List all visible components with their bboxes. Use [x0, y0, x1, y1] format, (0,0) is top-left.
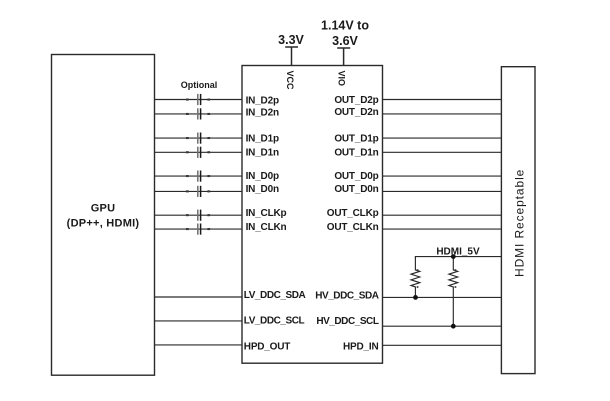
junction dot on HDMI_5V rail	[451, 254, 456, 259]
wire HPD_OUT	[155, 344, 243, 346]
svg-text:IN_D0n: IN_D0n	[246, 184, 279, 195]
svg-text:OUT_D0n: OUT_D0n	[334, 184, 378, 195]
wire IN_D2p	[155, 99, 243, 101]
svg-text:OUT_D0p: OUT_D0p	[334, 171, 378, 182]
wire IN_D2n	[155, 113, 243, 115]
wire OUT_D1n	[383, 151, 502, 153]
svg-text:IN_CLKn: IN_CLKn	[246, 222, 287, 233]
wire IN_D1p	[155, 137, 243, 139]
junction dot on HV_DDC_SCL	[451, 324, 456, 329]
svg-text:OUT_D2n: OUT_D2n	[334, 107, 378, 118]
wire IN_D0p	[155, 175, 243, 177]
resistor pin nubs	[417, 269, 457, 288]
svg-text:IN_D2p: IN_D2p	[246, 95, 279, 106]
wire HV_DDC_SCL	[383, 325, 502, 327]
wire OUT_D0p	[383, 175, 502, 177]
svg-text:1.14V to: 1.14V to	[321, 19, 369, 33]
capacitor C7 on IN_CLKp	[186, 210, 210, 221]
resistor R2 (HDMI_5V pull-up to HV_DDC_SCL)	[449, 257, 458, 327]
svg-text:3.6V: 3.6V	[332, 34, 358, 48]
svg-text:HPD_IN: HPD_IN	[343, 341, 378, 352]
svg-text:Optional: Optional	[181, 80, 218, 90]
capacitor C2 on IN_D2n	[186, 108, 210, 119]
VCC power stub	[285, 47, 298, 66]
wire IN_D1n	[155, 151, 243, 153]
wire LV_DDC_SDA	[155, 296, 243, 298]
svg-text:IN_D1n: IN_D1n	[246, 148, 279, 159]
wire LV_DDC_SCL	[155, 320, 243, 322]
svg-text:LV_DDC_SDA: LV_DDC_SDA	[244, 290, 306, 301]
resistor R1 (HDMI_5V pull-up to HV_DDC_SDA)	[411, 257, 420, 298]
svg-text:3.3V: 3.3V	[278, 33, 304, 47]
capacitor C3 on IN_D1p	[186, 133, 210, 144]
svg-text:OUT_D1n: OUT_D1n	[334, 148, 378, 159]
svg-text:IN_D1p: IN_D1p	[246, 133, 279, 144]
svg-text:LV_DDC_SCL: LV_DDC_SCL	[244, 315, 305, 326]
capacitor C6 on IN_D0n	[186, 186, 210, 197]
svg-text:IN_D0p: IN_D0p	[246, 171, 279, 182]
svg-text:OUT_CLKn: OUT_CLKn	[327, 222, 379, 233]
svg-text:HDMI_5V: HDMI_5V	[436, 247, 480, 258]
wire IN_CLKn	[155, 228, 243, 230]
wire OUT_CLKp	[383, 214, 502, 216]
wire OUT_CLKn	[383, 228, 502, 230]
GPU box	[52, 55, 155, 376]
wire OUT_D2n	[383, 113, 502, 115]
svg-text:HV_DDC_SCL: HV_DDC_SCL	[316, 316, 379, 327]
svg-text:OUT_D1p: OUT_D1p	[334, 133, 378, 144]
svg-text:IN_CLKp: IN_CLKp	[246, 208, 287, 219]
svg-text:HDMI Receptable: HDMI Receptable	[513, 169, 527, 277]
wire OUT_D1p	[383, 137, 502, 139]
svg-text:GPU: GPU	[91, 203, 116, 215]
capacitor C4 on IN_D1n	[186, 147, 210, 158]
HDMI receptacle box	[501, 67, 535, 374]
wire HDMI_5V rail	[415, 257, 501, 258]
VIO power stub	[337, 48, 350, 66]
wire OUT_D2p	[383, 99, 502, 101]
svg-text:OUT_D2p: OUT_D2p	[334, 95, 378, 106]
svg-text:IN_D2n: IN_D2n	[246, 108, 279, 119]
svg-text:HV_DDC_SDA: HV_DDC_SDA	[315, 290, 379, 301]
wire HV_DDC_SDA	[383, 296, 502, 298]
capacitor C5 on IN_D0p	[186, 171, 210, 182]
wire IN_CLKp	[155, 214, 243, 216]
svg-text:VIO: VIO	[337, 71, 347, 87]
svg-text:(DP++, HDMI): (DP++, HDMI)	[67, 218, 140, 230]
svg-text:OUT_CLKp: OUT_CLKp	[327, 208, 379, 219]
capacitor C1 on IN_D2p	[186, 94, 210, 105]
wire OUT_D0n	[383, 190, 502, 192]
svg-text:VCC: VCC	[285, 71, 295, 91]
wire IN_D0n	[155, 190, 243, 192]
capacitor C8 on IN_CLKn	[186, 224, 210, 235]
svg-text:HPD_OUT: HPD_OUT	[244, 342, 290, 353]
junction dot on HV_DDC_SDA	[413, 295, 418, 300]
wire HPD_IN	[383, 344, 502, 346]
IC U1 box	[242, 66, 383, 364]
